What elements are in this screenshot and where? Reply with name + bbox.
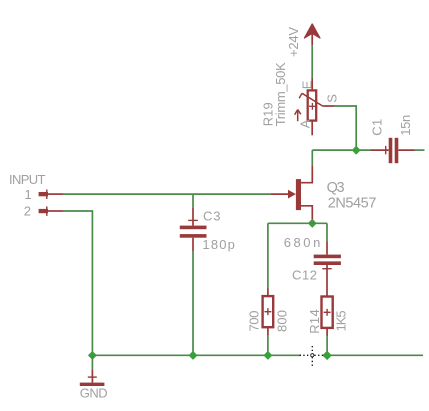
wire left branch down: [267, 223, 269, 288]
wire net row drain/C1: [312, 149, 370, 151]
wire down to drain pin: [311, 150, 313, 166]
origin cross dotted: [300, 346, 324, 368]
svg-text:2: 2: [24, 203, 31, 218]
svg-text:15n: 15n: [398, 115, 413, 136]
svg-text:C3: C3: [203, 208, 221, 223]
wire C3 down to rail: [192, 252, 194, 356]
ground symbol GND: [80, 355, 105, 386]
svg-text:C12: C12: [292, 267, 317, 282]
capacitor C12 680n: [314, 242, 341, 297]
input pin 2: [39, 206, 64, 216]
wire source row: [268, 222, 327, 224]
svg-text:E: E: [299, 80, 314, 89]
svg-text:700: 700: [246, 311, 261, 332]
svg-text:Q3: Q3: [327, 180, 345, 196]
wire C1 right: [415, 149, 425, 151]
wire pin1 to gate: [64, 193, 271, 195]
input pin 1: [39, 190, 64, 200]
junction rail gnd: [89, 352, 97, 360]
svg-text:800: 800: [274, 310, 289, 332]
wire supply to trimmer E: [311, 45, 313, 78]
wire right branch down: [326, 223, 328, 241]
transistor Q3 2N5457: [271, 166, 313, 221]
svg-text:C1: C1: [369, 119, 384, 136]
capacitor C1: [371, 138, 415, 163]
svg-text:1: 1: [25, 187, 32, 202]
wire R14 to rail: [326, 336, 328, 355]
svg-text:S: S: [325, 94, 340, 103]
junction rail C3: [189, 352, 197, 360]
svg-text:Trimm_50K: Trimm_50K: [273, 62, 288, 126]
wire pin2 down to rail: [64, 211, 93, 355]
wire bottom rail: [92, 354, 301, 356]
capacitor C3: [180, 194, 207, 252]
junction at source: [309, 220, 317, 228]
trimmer R19 Trimm_50K: [295, 79, 334, 136]
svg-text:A: A: [297, 119, 312, 128]
svg-text:2N5457: 2N5457: [328, 196, 377, 212]
svg-text:1K5: 1K5: [334, 310, 349, 331]
wire resistor to rail: [267, 336, 269, 355]
wire trimmer S to junction: [334, 106, 356, 150]
svg-text:INPUT: INPUT: [9, 172, 46, 187]
svg-text:+24V: +24V: [286, 27, 301, 57]
resistor R14 1K5: [322, 297, 333, 337]
svg-text:R14: R14: [307, 309, 322, 334]
resistor 700/800: [263, 289, 274, 336]
supply +24V symbol: [305, 24, 320, 45]
junction rail R14: [323, 351, 331, 359]
junction rail 700: [264, 352, 272, 360]
svg-text:GND: GND: [80, 386, 108, 401]
junction: [352, 146, 360, 154]
svg-text:180p: 180p: [202, 237, 235, 252]
